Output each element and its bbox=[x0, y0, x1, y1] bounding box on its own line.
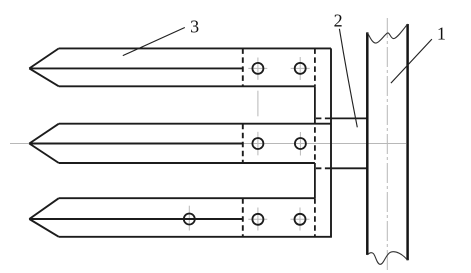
hidden edge: tine2 plate left bbox=[242, 124, 244, 163]
center line: tine2 right hole vertical bbox=[299, 132, 301, 156]
hole: tine1 plate left hole bbox=[252, 63, 263, 74]
upright bar (part 1) right edge bbox=[406, 24, 409, 260]
center line: holes column x=300.2 (tine1) bbox=[299, 57, 301, 80]
hole: tine2 plate left hole bbox=[252, 138, 263, 149]
tine 2 (middle prong) bbox=[29, 124, 331, 163]
break line: bar bottom squiggle bbox=[367, 252, 407, 265]
hole: tine2 plate right hole bbox=[295, 138, 306, 149]
svg-text:2: 2 bbox=[334, 10, 343, 30]
center line: upright bar vertical axis bbox=[386, 18, 388, 272]
hole: tine3 plate right hole bbox=[295, 214, 306, 225]
wire: tine2 lower point slant bbox=[29, 144, 59, 164]
wire: tine3 bottom edge + bracket bottom bbox=[59, 236, 332, 238]
bracket strip left edge x=314.9 (solid/hidden alternating) bbox=[314, 48, 316, 236]
svg-text:1: 1 bbox=[437, 23, 446, 43]
wire: tine2 top edge bbox=[59, 123, 331, 125]
hole: tine3 plate left hole bbox=[252, 214, 263, 225]
hidden edge: tine3 plate left bbox=[242, 198, 244, 237]
center line: tine 2 horizontal axis bbox=[10, 143, 406, 145]
connector block (part 2) top edge bbox=[315, 117, 367, 119]
hole: tine3 extra left hole bbox=[184, 214, 195, 225]
wire: tine1 upper point slant bbox=[29, 48, 59, 68]
wire: tine2 mid ridge line bbox=[29, 143, 243, 145]
wire: tine3 lower point slant bbox=[29, 219, 59, 237]
leader line for label 1 bbox=[391, 39, 432, 83]
leader line for label 2 bbox=[339, 29, 357, 128]
wire: tine1 mid ridge line bbox=[29, 67, 243, 69]
wire: tine1 top edge + bracket top bbox=[59, 47, 331, 49]
wire: tine2 upper point slant bbox=[29, 124, 59, 144]
wire: tine1 bottom edge bbox=[59, 85, 315, 87]
tine 3 (bottom prong) bbox=[29, 198, 332, 237]
wire: tine2 bottom edge bbox=[59, 162, 315, 164]
svg-text:3: 3 bbox=[190, 16, 199, 36]
wire: tine1 lower point slant bbox=[29, 68, 59, 86]
center line: holes column x=257.9 (tine1..tine2) bbox=[257, 58, 259, 156]
wire: tine3 top edge bbox=[59, 197, 315, 199]
center line: tine1 holes horizontal bbox=[248, 67, 309, 69]
tine 1 (top prong) bbox=[29, 48, 331, 86]
break line: bar top squiggle bbox=[367, 24, 407, 43]
bracket strip right edge bbox=[330, 48, 332, 236]
upright bar (part 1) left edge bbox=[366, 32, 369, 255]
hole: tine1 plate right hole bbox=[295, 63, 306, 74]
wire: tine3 mid ridge line bbox=[29, 218, 243, 220]
center line: tine3 hole crosshairs bbox=[189, 206, 309, 231]
wire: tine3 upper point slant bbox=[29, 198, 59, 219]
connector block (part 2) bottom edge bbox=[315, 167, 367, 169]
leader line for label 3 bbox=[123, 28, 185, 56]
hidden edge: tine1 plate left bbox=[242, 48, 244, 86]
